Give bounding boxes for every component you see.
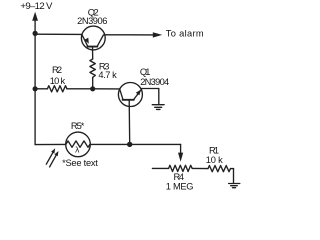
svg-text:10 k: 10 k bbox=[206, 155, 223, 165]
svg-text:Q1: Q1 bbox=[140, 67, 151, 77]
svg-text:+9–12 V: +9–12 V bbox=[20, 1, 53, 12]
svg-text:1 MEG: 1 MEG bbox=[166, 181, 194, 191]
svg-text:R4: R4 bbox=[174, 172, 185, 182]
svg-text:R2: R2 bbox=[52, 65, 62, 75]
svg-text:R1: R1 bbox=[209, 146, 219, 156]
svg-text:R5*: R5* bbox=[71, 121, 85, 131]
svg-text:To alarm: To alarm bbox=[166, 29, 204, 39]
svg-text:2N3904: 2N3904 bbox=[140, 77, 169, 87]
svg-text:4.7 k: 4.7 k bbox=[98, 70, 117, 80]
svg-text:2N3906: 2N3906 bbox=[77, 16, 107, 26]
svg-text:*See text: *See text bbox=[62, 158, 98, 168]
svg-text:10 k: 10 k bbox=[50, 76, 66, 86]
svg-text:λ: λ bbox=[75, 145, 80, 155]
